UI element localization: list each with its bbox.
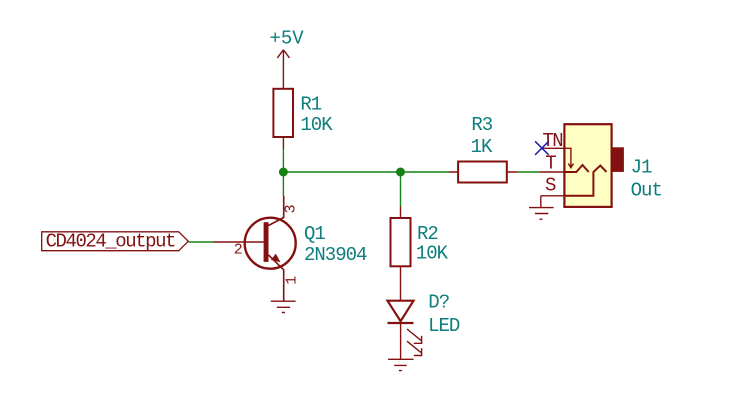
global label CD4024_output [42, 230, 189, 252]
wire junction to Q1 collector [282, 172, 284, 196]
svg-text:+5V: +5V [270, 28, 305, 50]
svg-text:Q1: Q1 [304, 223, 325, 245]
no-connect X on TN [535, 141, 549, 155]
svg-text:R3: R3 [471, 114, 492, 136]
connector J1 body [564, 124, 611, 207]
svg-text:R1: R1 [300, 93, 321, 115]
svg-text:Out: Out [631, 179, 662, 201]
connector J1 sleeve tab [612, 148, 624, 172]
svg-text:2N3904: 2N3904 [304, 244, 367, 266]
ground at Q1 emitter [271, 301, 296, 312]
wire R3 to J1 T pin [518, 171, 539, 173]
svg-text:S: S [545, 175, 556, 197]
svg-text:CD4024_output: CD4024_output [46, 230, 175, 252]
svg-text:10K: 10K [300, 114, 333, 136]
ground below LED [388, 359, 413, 370]
pin number 3 [282, 204, 299, 213]
svg-text:TN: TN [542, 130, 562, 152]
pin label S [545, 175, 556, 197]
junction node at R1/Q1 [279, 168, 288, 177]
wire R1 bottom to junction [282, 149, 284, 172]
transistor Q1 [213, 196, 367, 301]
junction node at R2 [396, 168, 405, 177]
LED emission arrows [407, 329, 422, 356]
svg-text:D?: D? [428, 292, 449, 314]
power +5V arrow symbol [277, 50, 289, 89]
wire junction 2 down to R2 [400, 172, 402, 207]
connector J1 switch contact and sleeve path [564, 166, 606, 196]
resistor R1 [273, 89, 333, 149]
wire main horizontal rail [283, 171, 448, 173]
connector J1 pin S [541, 195, 565, 197]
svg-text:LED: LED [428, 315, 460, 337]
svg-text:T: T [545, 152, 556, 174]
connector J1 pin T [539, 171, 564, 173]
connector J1 tip contact [564, 165, 588, 172]
LED D? [388, 292, 460, 360]
pin number 2 [234, 242, 243, 259]
resistor R3 [449, 114, 519, 183]
svg-text:2: 2 [234, 242, 243, 259]
connector J1 pin TN with switch arrow [542, 148, 574, 168]
resistor R2 [391, 207, 449, 301]
power +5V label text [270, 28, 305, 50]
svg-text:3: 3 [282, 204, 299, 213]
svg-text:1K: 1K [471, 136, 493, 158]
svg-text:J1: J1 [631, 157, 652, 179]
pin label T [545, 152, 556, 174]
connector J1 reference J1 Out [631, 157, 662, 202]
wire label to Q1 base [188, 241, 213, 243]
pin number 1 [283, 276, 300, 285]
svg-text:10K: 10K [416, 242, 449, 264]
ground at J1 sleeve [529, 196, 554, 219]
svg-text:1: 1 [283, 276, 300, 285]
pin label TN [542, 130, 562, 152]
